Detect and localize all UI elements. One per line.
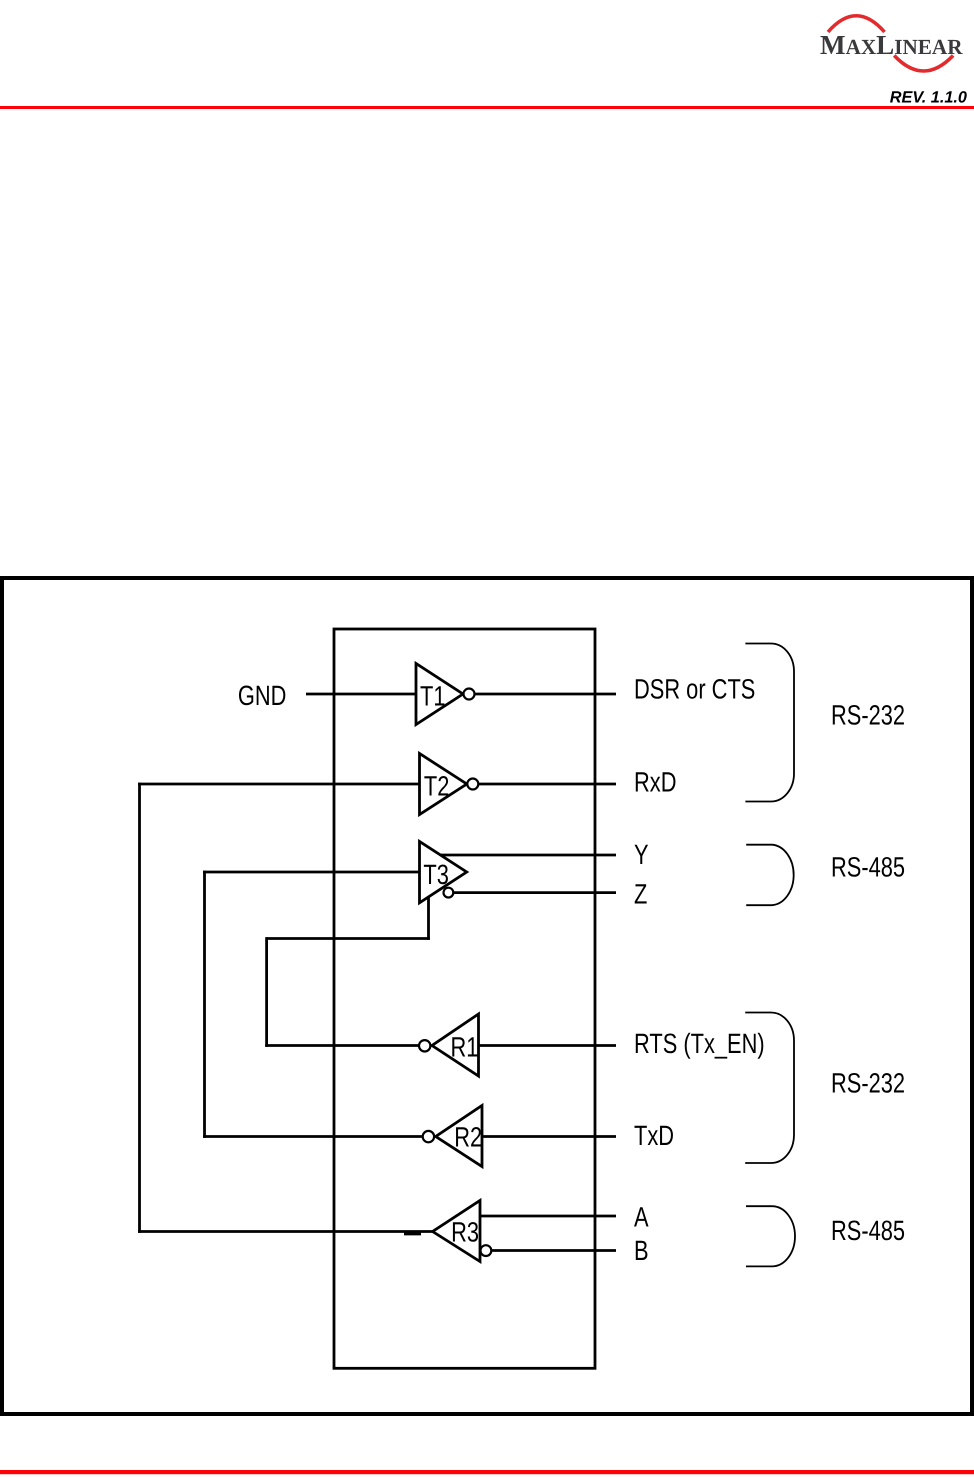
svg-text:T2: T2 bbox=[424, 770, 449, 801]
wire R3 output overlap dash bbox=[404, 1232, 421, 1235]
svg-text:RxD: RxD bbox=[634, 767, 676, 798]
wire R3 feedback vertical x140 to T2 input bbox=[138, 783, 141, 1233]
inversion bubble R3 B bbox=[481, 1245, 492, 1256]
svg-text:R1: R1 bbox=[451, 1032, 479, 1063]
wire R3 output bbox=[138, 1230, 433, 1233]
inversion bubble T1 bbox=[464, 689, 475, 700]
wire T3 Z output bbox=[453, 891, 616, 894]
wire R2 feedback vertical x204 to T3 input bbox=[203, 871, 206, 1138]
svg-text:GND: GND bbox=[238, 680, 287, 711]
logo top red arc bbox=[828, 16, 885, 32]
bracket RS-232 top bbox=[745, 644, 794, 802]
inversion bubble T3 Z bbox=[444, 888, 454, 898]
bracket RS-232 bottom bbox=[745, 1013, 794, 1164]
logo bottom red arc bbox=[894, 56, 953, 72]
svg-text:DSR or CTS: DSR or CTS bbox=[634, 673, 755, 704]
svg-text:TxD: TxD bbox=[634, 1120, 674, 1151]
wire R1 output bbox=[265, 1044, 418, 1047]
driver T3 bbox=[420, 842, 467, 903]
wire T3 input from node at x204 bbox=[203, 871, 419, 874]
svg-text:RS-485: RS-485 bbox=[831, 1215, 905, 1246]
inversion bubble R1 bbox=[419, 1040, 430, 1051]
header red rule bbox=[0, 106, 974, 109]
inversion bubble R2 bbox=[423, 1131, 434, 1142]
receiver R2 bbox=[436, 1106, 482, 1167]
IC boundary box bbox=[334, 629, 595, 1368]
svg-text:T1: T1 bbox=[420, 680, 445, 711]
svg-text:A: A bbox=[634, 1201, 649, 1232]
svg-text:B: B bbox=[634, 1235, 649, 1266]
wire R2 output bbox=[203, 1135, 422, 1138]
footer red rule bbox=[0, 1470, 974, 1474]
bracket RS-485 top bbox=[746, 845, 793, 906]
figure outer frame bbox=[2, 578, 972, 1414]
bracket RS-485 bottom bbox=[746, 1206, 795, 1266]
svg-text:Y: Y bbox=[634, 839, 649, 870]
wire T3 enable horizontal bbox=[267, 937, 430, 940]
svg-text:RS-232: RS-232 bbox=[831, 1067, 905, 1098]
wire enable vertical x267 bbox=[265, 937, 268, 1047]
wire R3 B input from pin bbox=[492, 1249, 616, 1252]
wire T3 Y output bbox=[439, 854, 617, 857]
wire T2 input from node at x140 bbox=[138, 783, 419, 786]
svg-text:T3: T3 bbox=[423, 859, 448, 890]
svg-text:RS-232: RS-232 bbox=[831, 699, 905, 730]
svg-text:REV. 1.1.0: REV. 1.1.0 bbox=[890, 89, 967, 107]
receiver R1 bbox=[432, 1014, 479, 1076]
wire T2 output to RxD pin bbox=[478, 783, 616, 786]
svg-text:Z: Z bbox=[634, 879, 647, 910]
wire T3 enable vertical drop bbox=[427, 895, 430, 940]
wire GND input to T1 bbox=[306, 693, 416, 696]
inversion bubble T2 bbox=[467, 779, 478, 790]
receiver R3 bbox=[433, 1201, 480, 1262]
svg-text:RTS (Tx_EN): RTS (Tx_EN) bbox=[634, 1028, 765, 1059]
svg-text:R3: R3 bbox=[451, 1217, 479, 1248]
wire R1 input from RTS pin bbox=[479, 1044, 617, 1047]
svg-text:MAXLINEAR: MAXLINEAR bbox=[820, 29, 963, 60]
svg-text:RS-485: RS-485 bbox=[831, 851, 905, 882]
wire R3 A input from pin bbox=[480, 1215, 616, 1218]
wire T1 output to DSR pin bbox=[474, 693, 616, 696]
wire R2 input from TxD pin bbox=[482, 1135, 616, 1138]
svg-text:R2: R2 bbox=[454, 1122, 482, 1153]
buffer T1 bbox=[416, 664, 463, 725]
buffer T2 bbox=[420, 754, 467, 815]
